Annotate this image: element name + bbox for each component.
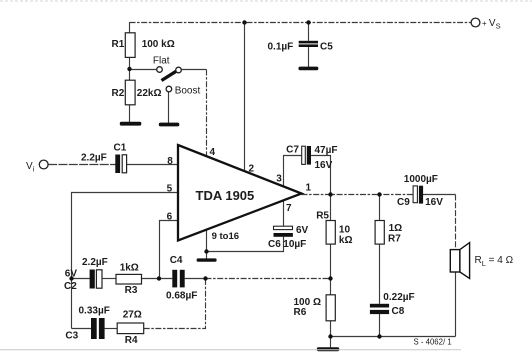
svg-text:1kΩ: 1kΩ: [120, 263, 139, 274]
svg-text:S - 4062/ 1: S - 4062/ 1: [414, 338, 452, 347]
svg-text:5: 5: [167, 184, 173, 195]
wire R4 up to node C: [144, 279, 206, 329]
svg-text:2.2µF: 2.2µF: [81, 153, 107, 164]
wire pin 7 to C6: [283, 200, 285, 226]
wire Boost contact to ground: [168, 92, 170, 123]
terminal +VS: [471, 18, 500, 31]
node C8 bottom: [377, 334, 381, 338]
svg-text:kΩ: kΩ: [339, 235, 353, 246]
resistor R2: [112, 80, 162, 105]
svg-text:0.22µF: 0.22µF: [383, 292, 414, 303]
wire R7 to C8: [379, 244, 381, 304]
pin 9to16: [212, 231, 239, 242]
capacitor C2: [64, 257, 108, 292]
capacitor C9: [397, 174, 443, 208]
wire pins 9to16 to ground: [206, 230, 208, 259]
node output R5: [328, 192, 332, 196]
svg-text:R1: R1: [112, 39, 125, 50]
svg-text:C2: C2: [64, 281, 77, 292]
svg-text:3: 3: [276, 174, 282, 185]
svg-text:1: 1: [306, 183, 312, 194]
wire to C3: [72, 328, 92, 330]
wire pin 1 output line: [302, 194, 414, 196]
switch Flat/Boost: [153, 56, 201, 97]
svg-text:6V: 6V: [296, 225, 309, 236]
node rail pin2: [242, 20, 246, 24]
scan fold line bottom: [0, 349, 461, 351]
resistor R3: [116, 263, 142, 297]
svg-text:4: 4: [210, 147, 216, 158]
node rail C5: [306, 20, 310, 24]
wire pin 5 to left rail: [72, 193, 179, 279]
wire node to R7: [379, 195, 381, 221]
ground under Boost: [159, 123, 180, 127]
pin 4: [210, 147, 216, 158]
svg-text:0.1µF: 0.1µF: [268, 42, 294, 53]
terminal Vi: [26, 160, 48, 173]
wire pin 3 to C7: [284, 156, 302, 187]
capacitor C5: [268, 41, 334, 53]
svg-text:R2: R2: [112, 88, 125, 99]
svg-text:R3: R3: [125, 285, 138, 296]
resistor R7: [375, 221, 402, 245]
svg-text:C4: C4: [170, 255, 183, 266]
pin 3: [276, 174, 282, 185]
pin 2: [249, 164, 255, 175]
wire R3 to node B: [142, 278, 173, 280]
svg-text:C7: C7: [286, 145, 299, 156]
pin 8: [167, 156, 173, 167]
wire bottom rail: [331, 336, 456, 338]
svg-text:6: 6: [167, 212, 173, 223]
wire C1 to pin 8: [127, 164, 178, 166]
svg-text:10: 10: [339, 225, 351, 236]
wire C3 to R4: [105, 328, 118, 330]
wire C6 to ground node: [207, 237, 284, 252]
node R5 R6: [328, 276, 332, 280]
svg-text:C5: C5: [320, 42, 333, 53]
ground under C5: [299, 67, 319, 71]
wire C8 to bottom rail: [379, 314, 381, 337]
wire left rail down: [71, 279, 73, 329]
capacitor C1: [81, 143, 127, 174]
svg-text:Boost: Boost: [175, 86, 201, 97]
capacitor C6: [268, 225, 309, 250]
wire R2 to ground: [129, 105, 131, 122]
wire C9 to speaker top: [423, 195, 456, 250]
wire pin 6 down to node B: [160, 221, 179, 279]
svg-text:C1: C1: [114, 143, 127, 154]
wire node to R6: [330, 279, 332, 295]
figure number S-4062/1: [414, 338, 452, 347]
wire C5 to ground: [308, 47, 310, 67]
resistor R4: [117, 310, 144, 347]
svg-text:TDA 1905: TDA 1905: [196, 188, 255, 203]
svg-text:22kΩ: 22kΩ: [137, 88, 162, 99]
wire node to switch Flat contact: [130, 69, 157, 71]
node R6 bottom: [328, 334, 332, 338]
node B: [157, 276, 161, 280]
wire Vi to C1: [48, 164, 115, 166]
svg-text:2: 2: [249, 164, 255, 175]
pin 1: [306, 183, 312, 194]
svg-text:0.68µF: 0.68µF: [166, 291, 197, 302]
svg-text:16V: 16V: [425, 197, 443, 208]
svg-text:C3: C3: [65, 331, 78, 342]
pin 6: [167, 212, 173, 223]
wire C7 to output node: [311, 156, 331, 195]
svg-text:0.33µF: 0.33µF: [79, 306, 110, 317]
svg-text:1000µF: 1000µF: [404, 174, 438, 185]
svg-text:C9: C9: [397, 197, 410, 208]
capacitor C8: [370, 292, 415, 317]
wire R1 bottom to node: [129, 57, 131, 80]
svg-text:16V: 16V: [315, 160, 333, 171]
wire R1 top: [129, 22, 131, 33]
svg-text:100 kΩ: 100 kΩ: [142, 39, 175, 50]
pin 5: [167, 184, 173, 195]
capacitor C4: [166, 255, 197, 302]
svg-text:C8: C8: [392, 306, 405, 317]
wire C2 to R3: [103, 278, 116, 280]
wire node A to C2: [72, 278, 90, 280]
wire node C to R5 bottom: [206, 278, 331, 280]
resistor R6: [294, 295, 336, 321]
svg-text:R5: R5: [316, 211, 329, 222]
wire node to R5: [330, 195, 332, 221]
wire rail to pin 2: [244, 23, 246, 172]
svg-text:9 to16: 9 to16: [212, 231, 239, 242]
svg-text:C6: C6: [268, 239, 281, 250]
svg-text:8: 8: [167, 156, 173, 167]
capacitor C7: [286, 145, 337, 172]
svg-text:Flat: Flat: [153, 56, 170, 67]
svg-text:2.2µF: 2.2µF: [82, 257, 108, 268]
op-amp U1 TDA 1905: [178, 145, 302, 241]
node under R1: [127, 67, 131, 71]
node A: [69, 276, 73, 280]
svg-text:R6: R6: [294, 307, 307, 318]
node output R7: [377, 192, 381, 196]
svg-text:1Ω: 1Ω: [389, 223, 403, 234]
wire R5 to node A line: [330, 244, 332, 278]
svg-text:27Ω: 27Ω: [123, 310, 142, 321]
svg-text:10µF: 10µF: [283, 239, 306, 250]
ground under R6: [317, 347, 340, 351]
capacitor C3: [65, 306, 109, 342]
ground under R2: [120, 122, 142, 126]
svg-text:7: 7: [286, 203, 292, 214]
resistor R1: [112, 33, 175, 58]
wire speaker bottom: [455, 272, 457, 337]
speaker RL: [450, 243, 513, 279]
wire switch to pin 4: [181, 70, 207, 157]
svg-text:R7: R7: [388, 234, 401, 245]
resistor R5: [316, 211, 352, 247]
node C: [203, 276, 207, 280]
scan border top: [0, 0, 532, 2]
svg-text:R4: R4: [125, 335, 138, 346]
wire rail to C5: [308, 23, 310, 41]
svg-text:47µF: 47µF: [315, 145, 338, 156]
ground under 9to16: [197, 258, 217, 261]
wire C4 to node C: [185, 278, 206, 280]
wire top supply rail: [130, 22, 472, 24]
pin 7: [286, 203, 292, 214]
node C6 ground: [204, 249, 208, 253]
wire R6 to ground: [330, 321, 332, 348]
